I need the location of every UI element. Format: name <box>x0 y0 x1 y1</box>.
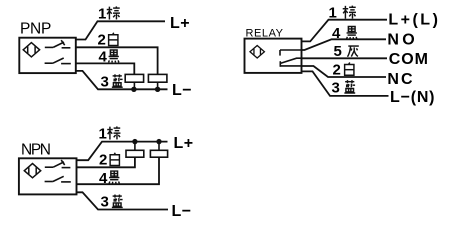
contact S2 bottom (PNP output 4) <box>45 58 71 64</box>
contact S3 top (NPN output 2) <box>45 160 71 168</box>
stub rail to RL3 <box>134 142 136 151</box>
svg-text:RELAY: RELAY <box>246 27 284 39</box>
wire 4 (black) to NO <box>302 39 387 50</box>
stub rail to RL4 <box>158 142 160 151</box>
wire 4 (black) (NPN) <box>77 157 160 184</box>
junction dot (NPN right) <box>156 139 161 144</box>
svg-text:1: 1 <box>98 5 106 22</box>
svg-text:3: 3 <box>101 74 109 91</box>
svg-text:5: 5 <box>334 43 342 60</box>
svg-text:NO: NO <box>387 31 415 48</box>
contact S1 top (PNP output 2) <box>45 40 71 48</box>
wire 2 (white) <box>76 47 158 74</box>
svg-text:1: 1 <box>329 4 337 21</box>
svg-text:L+: L+ <box>174 135 194 152</box>
svg-text:L−(N): L−(N) <box>390 89 435 106</box>
wire 1 (brown) to L+(L) <box>302 20 388 42</box>
wire 3 (blue) to L-(N) <box>302 71 389 96</box>
relay contact: moving blade (COM) <box>280 58 301 67</box>
junction dot (PNP right) <box>155 87 160 92</box>
sensor box U1 (PNP) <box>19 38 76 73</box>
svg-text:2: 2 <box>333 62 341 79</box>
svg-text:PNP: PNP <box>20 21 51 38</box>
load resistor RL4 (NPN) <box>150 150 167 157</box>
wire 2 (white) to NC <box>302 66 387 77</box>
wire 1 (brown) to L+ rail (NPN) <box>77 142 168 161</box>
proximity diamond symbol (RELAY) <box>250 45 264 58</box>
stub RL2 to rail <box>157 82 159 89</box>
svg-text:L+: L+ <box>170 15 190 32</box>
wire 3 (blue) (NPN) <box>77 192 169 209</box>
svg-text:NPN: NPN <box>21 141 51 158</box>
wire 1 (brown) to L+ <box>76 21 165 39</box>
svg-text:L−: L− <box>172 82 192 99</box>
relay contact: NO lead <box>280 50 302 56</box>
svg-text:1: 1 <box>99 126 107 143</box>
relay contact: NC lead <box>281 65 302 67</box>
stub RL1 to rail <box>133 82 135 89</box>
svg-text:4: 4 <box>99 48 108 65</box>
svg-text:2: 2 <box>98 32 106 49</box>
svg-text:3: 3 <box>332 79 340 96</box>
svg-text:NC: NC <box>387 71 413 88</box>
contact S4 bottom (NPN output 4) <box>45 176 71 182</box>
svg-text:4: 4 <box>332 25 341 42</box>
proximity diamond symbol (PNP) <box>23 43 39 57</box>
load resistor RL1 (PNP) <box>125 74 143 82</box>
load resistor RL2 (PNP) <box>148 74 167 82</box>
proximity diamond symbol (NPN) <box>24 164 40 178</box>
svg-text:COM: COM <box>389 51 429 68</box>
wire 5 (gray) to COM <box>302 57 388 59</box>
wire 3 (blue) to L- rail <box>76 71 168 89</box>
wire 2 (white) (NPN) <box>77 157 135 167</box>
load resistor RL3 (NPN) <box>126 150 144 157</box>
sensor box U3 (RELAY) <box>245 39 302 73</box>
svg-text:L−: L− <box>172 203 192 220</box>
sensor box U2 (NPN) <box>19 158 77 194</box>
svg-text:3: 3 <box>101 194 109 211</box>
junction dot (NPN left) <box>132 139 137 144</box>
svg-text:4: 4 <box>99 170 108 187</box>
svg-text:2: 2 <box>99 152 107 169</box>
wire 4 (black) <box>76 63 135 74</box>
junction dot (PNP left) <box>131 87 136 92</box>
